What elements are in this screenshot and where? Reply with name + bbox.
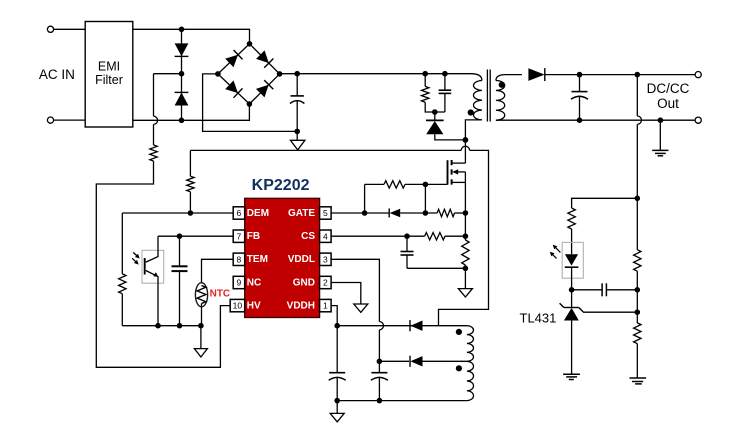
svg-text:KP2202: KP2202 xyxy=(252,177,310,194)
svg-text:DC/CC: DC/CC xyxy=(647,81,690,96)
svg-text:Out: Out xyxy=(657,96,679,111)
svg-text:TEM: TEM xyxy=(247,254,268,265)
svg-text:7: 7 xyxy=(237,231,242,241)
svg-text:VDDL: VDDL xyxy=(288,254,315,265)
svg-text:CS: CS xyxy=(301,231,315,242)
svg-text:AC IN: AC IN xyxy=(39,67,75,82)
svg-text:TL431: TL431 xyxy=(520,310,557,325)
svg-text:4: 4 xyxy=(323,231,328,241)
svg-text:8: 8 xyxy=(237,254,242,264)
svg-text:Filter: Filter xyxy=(95,73,123,87)
svg-text:2: 2 xyxy=(323,278,328,288)
svg-text:EMI: EMI xyxy=(98,59,120,73)
svg-text:HV: HV xyxy=(247,301,261,312)
svg-text:GND: GND xyxy=(293,277,315,288)
svg-text:1: 1 xyxy=(323,301,328,311)
svg-text:DEM: DEM xyxy=(247,208,269,219)
svg-text:5: 5 xyxy=(323,208,328,218)
svg-text:10: 10 xyxy=(233,301,243,311)
svg-text:FB: FB xyxy=(247,231,260,242)
svg-text:6: 6 xyxy=(237,208,242,218)
svg-text:NC: NC xyxy=(247,277,261,288)
svg-text:GATE: GATE xyxy=(288,208,315,219)
svg-text:VDDH: VDDH xyxy=(287,301,315,312)
svg-text:3: 3 xyxy=(323,254,328,264)
svg-text:NTC: NTC xyxy=(210,289,231,300)
svg-text:9: 9 xyxy=(237,278,242,288)
